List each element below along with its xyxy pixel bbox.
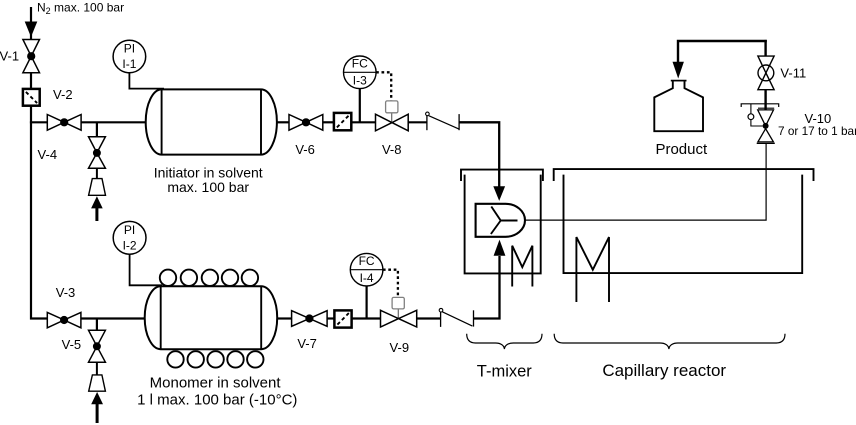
arrow into mixer bottom [494, 240, 506, 256]
check valve CV1 [426, 115, 428, 131]
svg-text:N2 max. 100 bar: N2 max. 100 bar [37, 0, 124, 16]
vessel monomer [145, 286, 278, 349]
mixer body [476, 204, 525, 237]
svg-text:V-6: V-6 [295, 142, 315, 157]
valve V-3 [47, 312, 81, 327]
N2 feed arrow [25, 22, 38, 38]
filter F3 [334, 310, 351, 327]
feed arrow into V-5 [91, 392, 103, 404]
svg-text:V-8: V-8 [382, 142, 402, 157]
svg-text:Capillary reactor: Capillary reactor [602, 361, 726, 380]
instrument FC I-4 [350, 253, 383, 286]
instrument FC I-3 stem [359, 89, 361, 123]
T-mixer lid [461, 170, 543, 181]
svg-text:PI: PI [124, 42, 135, 56]
svg-text:FC: FC [359, 254, 375, 268]
wire V-4 to feed nozzle [96, 168, 98, 179]
wire vessel to V-6 [277, 121, 290, 123]
T-mixer coil M [512, 246, 532, 287]
wire V-5 to feed nozzle [96, 362, 98, 375]
feed nozzle trapezoid V-4 [89, 179, 106, 196]
svg-text:V-9: V-9 [390, 340, 410, 355]
regulator V-10 center dot [763, 123, 769, 129]
brace capillary reactor [554, 334, 785, 349]
control valve V-8 [376, 114, 409, 131]
valve V-11 [758, 56, 774, 90]
svg-text:max. 100 bar: max. 100 bar [167, 179, 249, 195]
wire V-9 to check valve [417, 317, 441, 319]
wire V-10 to V-11 [764, 89, 766, 110]
wire F2 to V-8 [351, 121, 376, 123]
wire V-8 to check valve [408, 121, 427, 123]
instrument PI I-1 [129, 73, 164, 89]
wire V-5 branch [96, 319, 98, 332]
regulator V-10 bottom triangle [758, 129, 774, 142]
capillary reactor bath box [564, 175, 803, 274]
svg-text:I-1: I-1 [122, 57, 136, 71]
svg-text:Monomer in solvent: Monomer in solvent [150, 375, 282, 392]
svg-text:I-3: I-3 [353, 73, 367, 87]
wire supply vertical down to monomer row [31, 106, 47, 319]
check valve CV2 [440, 310, 442, 327]
svg-text:V-11: V-11 [780, 65, 806, 80]
svg-text:FC: FC [352, 57, 368, 71]
control valve V-9 [381, 310, 417, 327]
arrow into product bottle [673, 62, 684, 79]
valve V-5 [89, 330, 106, 362]
mixer Y [491, 207, 518, 235]
signal dashed FC I-4 to actuator [383, 270, 398, 297]
wire to T-mixer top inlet [459, 122, 499, 187]
product bottle [654, 81, 703, 131]
wire top row pipe to vessel [30, 121, 147, 123]
regulator V-10 inlet seat line [758, 107, 774, 109]
svg-text:V-4: V-4 [38, 147, 58, 162]
capillary reactor lid [554, 169, 814, 181]
wire V-6 to F2 [323, 121, 335, 123]
svg-text:T-mixer: T-mixer [477, 363, 533, 381]
instrument FC I-3 [344, 56, 377, 89]
instrument FC I-4 stem [366, 286, 368, 319]
svg-text:7 or 17 to 1 bar: 7 or 17 to 1 bar [778, 124, 856, 138]
svg-text:PI: PI [124, 223, 135, 237]
wire F3 to V-9 [352, 317, 381, 319]
svg-text:V-5: V-5 [62, 337, 82, 352]
actuator of V-9 [397, 309, 399, 319]
regulator V-10 outlet seat line [757, 142, 775, 144]
wire product top run [678, 41, 767, 63]
svg-text:V-3: V-3 [56, 285, 76, 300]
svg-text:I-4: I-4 [360, 271, 374, 285]
cooling coils top [160, 270, 258, 286]
feed arrow into V-4 [91, 196, 103, 208]
instrument PI I-2 [130, 254, 162, 285]
vessel initiator [146, 89, 277, 154]
wire V-1 to filter [30, 73, 32, 90]
regulator V-10 top triangle [758, 110, 774, 126]
capillary reactor coil M [576, 237, 609, 302]
regulator V-10 diaphragm bar [741, 104, 779, 107]
valve V-7 [292, 311, 328, 327]
wire vessel to V-7 [277, 317, 292, 319]
valve V-1 [23, 40, 40, 73]
valve V-2 [47, 115, 81, 131]
svg-text:I-2: I-2 [123, 239, 137, 253]
wire bottom inlet into mixer [474, 256, 500, 319]
signal dashed FC I-3 to actuator [376, 72, 391, 100]
actuator of V-8 [391, 113, 393, 123]
brace T-mixer [467, 334, 542, 349]
wire V-11 up to product line [764, 40, 766, 56]
cooling coils bottom [167, 351, 263, 367]
valve V-4 [89, 137, 106, 169]
regulator V-10 pilot [750, 104, 752, 114]
arrow into mixer top [493, 186, 505, 201]
valve V-6 [289, 115, 323, 131]
wire V-4 branch [96, 122, 98, 137]
svg-text:V-2: V-2 [53, 87, 73, 102]
wire N2 inlet vertical [30, 7, 32, 40]
svg-text:V-7: V-7 [297, 336, 317, 351]
svg-text:V-1: V-1 [0, 49, 19, 64]
svg-text:Product: Product [655, 141, 708, 158]
feed nozzle trapezoid V-5 [89, 375, 106, 391]
wire V-7 to F3 [327, 317, 335, 319]
svg-text:1 l max. 100 bar (-10°C): 1 l max. 100 bar (-10°C) [137, 392, 297, 409]
filter F2 [334, 113, 351, 130]
wire monomer row pipe [81, 317, 145, 319]
filter F1 [23, 89, 40, 106]
product line from mixer [525, 144, 766, 221]
T-mixer bath box [465, 175, 541, 274]
